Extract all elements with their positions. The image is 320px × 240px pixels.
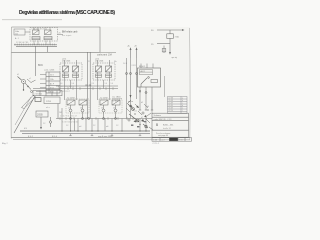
left bus tail bbox=[33, 88, 56, 90]
injector group G2 dashed outline bbox=[99, 99, 122, 113]
svg-text:30+: 30+ bbox=[114, 61, 117, 63]
thermo chain dots bbox=[134, 109, 148, 125]
revision table text bbox=[169, 98, 184, 113]
svg-text:M 4: M 4 bbox=[24, 128, 27, 130]
wire along table edge bbox=[164, 76, 166, 97]
svg-text:elv 1326: elv 1326 bbox=[95, 61, 104, 63]
svg-text:12: 12 bbox=[68, 108, 70, 110]
connector block stub wires bbox=[36, 75, 46, 92]
fuse F1 bbox=[167, 34, 174, 39]
svg-text:1 3 5 7 9 11 13 15 17: 1 3 5 7 9 11 13 15 17 bbox=[60, 116, 77, 118]
svg-text:nap 8 mm 1988: nap 8 mm 1988 bbox=[98, 136, 113, 138]
supply down arrow bbox=[169, 52, 171, 55]
lower bus inline connectors bbox=[70, 118, 117, 120]
revision table bbox=[168, 97, 188, 114]
svg-text:2 4 6 8 10 12 14 16: 2 4 6 8 10 12 14 16 bbox=[62, 122, 78, 124]
svg-text:2x: 2x bbox=[59, 33, 61, 35]
feed risers to ECU bbox=[127, 58, 137, 119]
junction ticks on risers bbox=[85, 84, 91, 86]
bus mid upper line bbox=[56, 85, 118, 87]
U1 bottom pin wires bbox=[140, 87, 152, 110]
valve V1 coil b bbox=[73, 66, 79, 72]
svg-text:a2 b1: a2 b1 bbox=[95, 59, 99, 61]
stub connector C3 bbox=[162, 46, 166, 54]
wire bus extension bbox=[100, 51, 116, 53]
harness wedge bbox=[22, 95, 36, 109]
sensor cluster switch c bbox=[143, 124, 148, 128]
injector group G2 bbox=[100, 100, 120, 119]
svg-text:res 1840: res 1840 bbox=[112, 96, 121, 99]
connector label box J1 bbox=[14, 29, 25, 40]
svg-text:feuille 1/1: feuille 1/1 bbox=[163, 128, 171, 130]
sensor cluster pin specks bbox=[131, 121, 146, 127]
svg-text:1.4: 1.4 bbox=[72, 83, 74, 85]
fuse/relay box BM outline bbox=[12, 27, 101, 52]
frame bottom double line bbox=[11, 137, 190, 139]
sensor cluster switch b bbox=[129, 114, 139, 122]
svg-text:Bfig. 2: Bfig. 2 bbox=[2, 143, 9, 145]
svg-text:rel.: rel. bbox=[15, 33, 18, 36]
wire stub right of relay box bbox=[58, 34, 64, 36]
svg-text:m6: m6 bbox=[106, 126, 108, 128]
valve V2 coil b bbox=[106, 66, 112, 72]
svg-text:fus. inject.: fus. inject. bbox=[62, 34, 72, 37]
frame left edge bbox=[10, 27, 12, 139]
bus mid drop wires bbox=[65, 89, 110, 101]
label box E2 bbox=[36, 111, 48, 117]
V2 coil row2 bbox=[96, 74, 112, 77]
relay K2 bbox=[44, 30, 52, 40]
feed row 15 bbox=[157, 43, 170, 45]
thermo switch chain bbox=[127, 100, 153, 130]
svg-text:carburant 10A: carburant 10A bbox=[97, 54, 112, 57]
sensor cluster switch a bbox=[128, 104, 134, 110]
svg-text:14: 14 bbox=[113, 108, 115, 110]
svg-text:1.2: 1.2 bbox=[116, 125, 118, 127]
svg-text:elv 1325: elv 1325 bbox=[62, 61, 71, 63]
svg-text:a1: a1 bbox=[29, 78, 31, 80]
terminal bus comb ticks bbox=[15, 44, 55, 46]
svg-text:C 23: C 23 bbox=[153, 139, 157, 141]
bus mid bbox=[56, 88, 118, 90]
svg-text:voir page 40: voir page 40 bbox=[158, 135, 168, 137]
lower bus bbox=[56, 118, 152, 120]
U1 pin inline circle bbox=[145, 92, 147, 94]
bottom strip cells bbox=[152, 138, 192, 142]
riser end arrow bbox=[130, 95, 132, 98]
svg-text:B: B bbox=[156, 123, 158, 127]
V1 pin wires bbox=[65, 60, 77, 89]
terminal bus bbox=[14, 45, 57, 47]
svg-text:BDC: BDC bbox=[38, 64, 43, 67]
ground bus pair bbox=[20, 130, 150, 132]
svg-text:A - 1: A - 1 bbox=[15, 37, 19, 40]
wire J1 to relay enclosure bbox=[25, 31, 30, 33]
lower bus pin ticks bbox=[60, 117, 146, 120]
svg-text:1.4: 1.4 bbox=[105, 83, 107, 85]
harness diagonal second strand bbox=[15, 97, 31, 125]
svg-text:205: 205 bbox=[59, 112, 62, 114]
svg-text:1.4: 1.4 bbox=[111, 83, 113, 85]
svg-text:BM relais carb: BM relais carb bbox=[62, 31, 78, 34]
svg-text:c12: c12 bbox=[134, 111, 137, 113]
svg-text:12: 12 bbox=[101, 108, 103, 110]
svg-text:8200 - 431: 8200 - 431 bbox=[163, 125, 174, 127]
wire to node B bbox=[47, 46, 49, 52]
ignition switch S1 bbox=[18, 77, 32, 91]
V2 pin wires bbox=[98, 60, 110, 89]
title block main box bbox=[152, 113, 189, 130]
tag mark bbox=[35, 98, 41, 102]
inline connectors on risers bbox=[126, 73, 138, 75]
svg-text:1.2: 1.2 bbox=[93, 125, 95, 127]
svg-text:A1 B2 C3 D4 E5 F6: A1 B2 C3 D4 E5 F6 bbox=[58, 85, 74, 88]
supply drop wire bbox=[169, 30, 171, 52]
title block note box bbox=[152, 130, 189, 137]
supply arrow stub W1 bbox=[130, 49, 132, 58]
U1 internal switch bbox=[141, 77, 149, 87]
dashed relay enclosure bbox=[30, 28, 58, 42]
svg-text:2 4 6 8 10: 2 4 6 8 10 bbox=[35, 94, 43, 96]
connector block row texts bbox=[50, 75, 55, 94]
svg-text:ed.2: ed.2 bbox=[161, 139, 165, 141]
node BDC wire bbox=[35, 60, 37, 76]
lower bus drops bbox=[71, 119, 147, 132]
ground junction dots bbox=[61, 130, 146, 131]
U1 internal resistor bbox=[151, 80, 158, 83]
svg-text:B 1.4: B 1.4 bbox=[52, 136, 58, 138]
cluster wire to block bbox=[151, 100, 153, 114]
relay pin ticks bbox=[34, 28, 50, 45]
switch aux contacts bbox=[27, 79, 36, 93]
svg-text:C 23 - 1: C 23 - 1 bbox=[153, 143, 160, 145]
U1 pin arrow mark bbox=[139, 91, 141, 94]
sensor cluster extra contacts bbox=[126, 104, 151, 121]
thermo switch arrowheads bbox=[136, 106, 139, 109]
svg-text:9.90: 9.90 bbox=[179, 139, 183, 141]
relay K1 bbox=[32, 30, 40, 40]
battery feed row 30 bbox=[157, 29, 182, 31]
svg-text:BVH 1: BVH 1 bbox=[139, 66, 146, 68]
svg-text:E 0.2: E 0.2 bbox=[28, 136, 34, 138]
wire gauge labels scatter bbox=[24, 61, 149, 130]
svg-text:m4: m4 bbox=[79, 126, 81, 128]
svg-text:b7: b7 bbox=[141, 117, 143, 119]
svg-text:1253: 1253 bbox=[46, 101, 52, 103]
V1 coil row2 bbox=[63, 74, 79, 77]
svg-text:Schema: Schema bbox=[154, 115, 162, 117]
stub wire left of G1 bbox=[61, 108, 63, 131]
svg-text:7.5A: 7.5A bbox=[175, 36, 180, 39]
svg-text:M N P R S T: M N P R S T bbox=[60, 91, 71, 93]
svg-text:14: 14 bbox=[80, 108, 82, 110]
switch center dot bbox=[23, 81, 24, 82]
svg-text:205B: 205B bbox=[37, 114, 43, 117]
svg-text:Degvielas attīrīšanas sistēma: Degvielas attīrīšanas sistēma (MSC CAPUC… bbox=[19, 10, 115, 16]
terminal row under connector bbox=[33, 91, 62, 96]
svg-text:02.90: 02.90 bbox=[169, 110, 174, 112]
svg-text:1.2: 1.2 bbox=[43, 123, 45, 125]
svg-text:1 2 3 4 5 6 7 8 9: 1 2 3 4 5 6 7 8 9 bbox=[16, 42, 28, 44]
valve V1 coil a bbox=[63, 66, 69, 72]
svg-text:d2: d2 bbox=[17, 74, 19, 76]
svg-text:a b c: a b c bbox=[46, 107, 50, 109]
aux connector near label box bbox=[49, 117, 51, 127]
rule under title bbox=[2, 19, 62, 21]
wire riser M1 bbox=[86, 52, 88, 118]
sensor cluster arrow a bbox=[129, 105, 133, 108]
svg-text:1.2: 1.2 bbox=[66, 125, 68, 127]
svg-text:1.4: 1.4 bbox=[60, 83, 62, 85]
harness diagonal to corner bbox=[14, 96, 35, 133]
sensor cluster arrow b bbox=[141, 119, 145, 122]
U1 top pin stubs bbox=[141, 64, 153, 69]
connector block P1 bbox=[46, 72, 60, 93]
svg-text:AB 12: AB 12 bbox=[141, 70, 146, 73]
wire with arrow from E2 bbox=[40, 117, 42, 127]
wire from connector down bbox=[57, 104, 59, 119]
svg-text:apr inj: apr inj bbox=[172, 57, 178, 59]
svg-text:a2 b1: a2 b1 bbox=[62, 59, 66, 61]
svg-text:carbu MSC 89 · C 23: carbu MSC 89 · C 23 bbox=[154, 118, 172, 121]
ground stubs under bus bbox=[69, 134, 141, 136]
purge valve module V1 dashed box bbox=[60, 63, 82, 80]
wire riser M2 bbox=[89, 52, 91, 118]
svg-text:2.5: 2.5 bbox=[88, 61, 90, 63]
supply arrow stub W2 bbox=[136, 49, 138, 58]
ECU module U1 box bbox=[138, 68, 161, 87]
U1 pin connector ticks bbox=[139, 109, 153, 111]
scanned paper tint inside frame bbox=[11, 27, 190, 140]
U1 header rows bbox=[140, 70, 153, 75]
arrow right on feed bbox=[182, 29, 185, 31]
wire to node A bbox=[35, 46, 37, 60]
purge valve module V2 dashed box bbox=[93, 63, 115, 80]
bottom strip logo cell bbox=[169, 138, 178, 141]
injector group G1 bbox=[67, 100, 87, 119]
svg-text:2.5: 2.5 bbox=[92, 83, 94, 85]
svg-text:b2: b2 bbox=[141, 102, 143, 104]
switch contact dots bbox=[23, 86, 29, 91]
valve V2 coil a bbox=[96, 66, 102, 72]
bus mid pin ticks bbox=[59, 87, 113, 90]
svg-text:d4: d4 bbox=[147, 106, 149, 108]
label box 1253 bbox=[44, 97, 60, 104]
injector group G1 dashed outline bbox=[66, 99, 89, 113]
frame right edge bbox=[189, 28, 192, 140]
svg-text:cont. 1253: cont. 1253 bbox=[44, 69, 55, 72]
